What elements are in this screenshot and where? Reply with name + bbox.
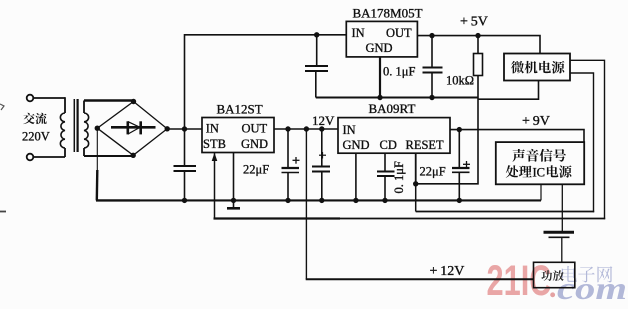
svg-text:220V: 220V (22, 130, 50, 144)
node 22uF (285, 126, 290, 131)
wire bridge to BA12ST IN (167, 128, 202, 130)
svg-text:10kΩ: 10kΩ (446, 74, 474, 88)
node +12V branch (304, 126, 309, 131)
node C2 gnd (285, 198, 290, 203)
capacitor C2 22uF (282, 129, 300, 200)
svg-text:22μF: 22μF (243, 163, 269, 177)
capacitor C5 22uF (452, 130, 470, 201)
svg-text:BA12ST: BA12ST (217, 102, 263, 117)
svg-text:IN: IN (206, 122, 219, 136)
svg-text:BA09RT: BA09RT (369, 101, 416, 116)
block amplifier (534, 262, 575, 287)
svg-text:12V: 12V (312, 113, 335, 128)
svg-text:IN: IN (343, 123, 356, 137)
svg-text:STB: STB (203, 137, 226, 151)
node rectifier output (182, 126, 187, 131)
svg-text:CD: CD (380, 138, 397, 152)
scan mark left edge 2 (0, 211, 6, 213)
node U3 gnd (377, 95, 382, 100)
svg-text:GND: GND (366, 41, 393, 55)
node U1 gnd (231, 198, 236, 203)
wire audio box gnd (540, 184, 542, 200)
node top rail cap (314, 32, 319, 37)
wire RESET pullup (416, 76, 478, 184)
svg-text:BA178M05T: BA178M05T (353, 6, 423, 21)
svg-text:0. 1μF: 0. 1μF (383, 65, 415, 79)
svg-text:0. 1μF: 0. 1μF (392, 161, 406, 193)
upper ground rail right (478, 81, 539, 100)
svg-text:+ 9V: + 9V (522, 114, 550, 129)
capacitor C6 input (305, 35, 328, 98)
capacitor C7 0.1uF (423, 36, 443, 98)
svg-text:OUT: OUT (242, 122, 268, 136)
svg-text:OUT: OUT (386, 26, 412, 40)
node RESET (413, 181, 418, 186)
node 22uF2 (457, 127, 462, 132)
watermark dianziwang (562, 266, 613, 283)
svg-text:IN: IN (352, 26, 365, 40)
wire U1 GND (233, 153, 235, 209)
wire to BA178M05T input (185, 35, 347, 129)
STB arrow (212, 153, 218, 161)
AC input terminal bottom (27, 154, 34, 161)
wire U3 GND (379, 57, 381, 98)
capacitor C3 (312, 129, 330, 200)
svg-text:21IC: 21IC (487, 257, 552, 305)
block microcomputer power (504, 54, 570, 81)
wire RESET (415, 153, 417, 184)
regulator U3 BA178M05T (346, 21, 417, 57)
wire +5V (417, 36, 540, 54)
wire U2 GND (355, 153, 357, 200)
node U2 gnd (353, 198, 358, 203)
svg-text:GND: GND (241, 137, 268, 151)
node cap (319, 126, 324, 131)
transformer T1 (34, 97, 89, 157)
node C5 gnd (457, 198, 462, 203)
block audio signal IC power (496, 142, 584, 184)
node C4 gnd (382, 198, 387, 203)
ground rail (96, 199, 140, 201)
svg-text:+ 12V: + 12V (430, 264, 465, 279)
resistor R1 10k (474, 36, 483, 76)
wire +9V (450, 130, 584, 143)
ground symbol (227, 207, 240, 210)
node C1 ground (182, 198, 187, 203)
wire bridge negative down (96, 128, 98, 171)
wire secondary top to bridge (84, 99, 134, 101)
wire STB control loop (214, 153, 216, 219)
bridge rectifier D1 (95, 99, 170, 158)
wire U1 OUT 12V (274, 128, 338, 130)
node C3 gnd (319, 198, 324, 203)
wire RESET to uC power (415, 184, 417, 212)
svg-text:RESET: RESET (406, 138, 445, 152)
wire +12V to amplifier (305, 129, 307, 279)
label AC 220V (22, 113, 50, 144)
svg-text:IC: IC (533, 166, 546, 180)
AC input terminal top (27, 95, 34, 102)
regulator U2 BA09RT (338, 118, 450, 154)
node R1 top (475, 33, 480, 38)
capacitor C1 filter (174, 129, 197, 200)
svg-text:GND: GND (343, 138, 370, 152)
upper ground rail (316, 97, 478, 99)
capacitor C8 coupling (544, 184, 575, 262)
node C7 top (429, 33, 434, 38)
node C7 gnd (429, 95, 434, 100)
capacitor C4 0.1uF CD (377, 153, 395, 200)
regulator U1 BA12ST (202, 118, 274, 153)
svg-text:+ 5V: + 5V (460, 15, 488, 30)
svg-text:22μF: 22μF (420, 165, 446, 179)
scan mark left edge 1 (0, 104, 4, 110)
wire secondary bottom to bridge (84, 155, 133, 157)
